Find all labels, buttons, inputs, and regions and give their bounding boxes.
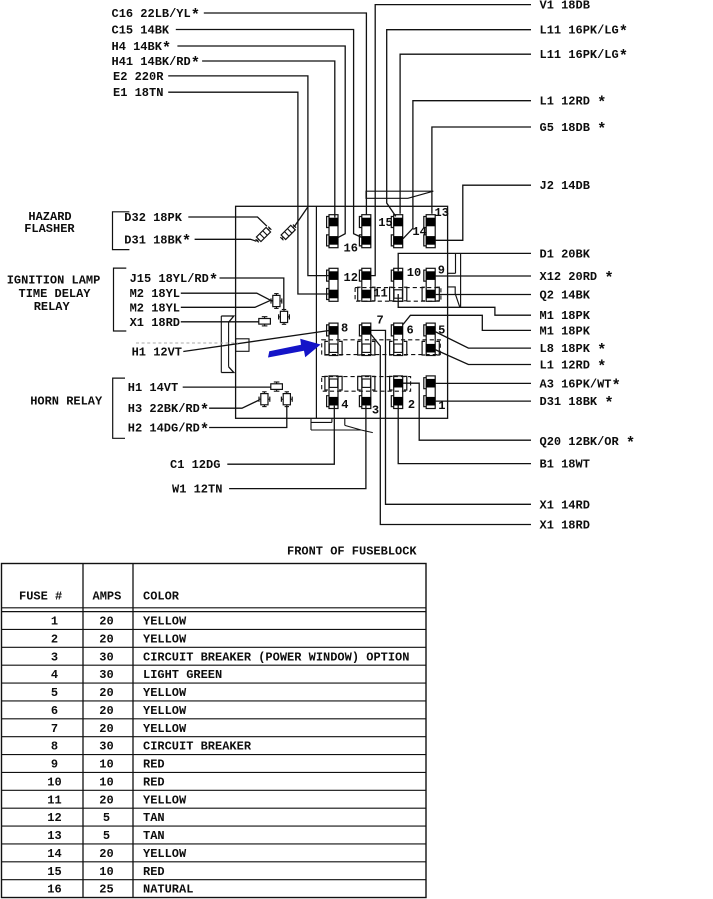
fuse 10 bottom terminal	[394, 290, 402, 298]
fuse 10 top terminal	[393, 271, 403, 280]
svg-text:20: 20	[99, 704, 113, 718]
svg-text:X1 14RD: X1 14RD	[540, 498, 590, 512]
wire J2 to fuse 13 bottom	[435, 185, 531, 240]
fuse clip zone row 8-7-6-5 (dashed)	[322, 340, 441, 355]
svg-text:20: 20	[99, 722, 113, 736]
fuse table row 6 separator	[2, 718, 427, 720]
horn relay terminal A	[261, 394, 268, 405]
wire splice to relay terminal	[271, 299, 273, 302]
fuse 9 top terminal	[426, 271, 436, 280]
svg-text:13: 13	[435, 206, 449, 220]
svg-text:10: 10	[47, 775, 61, 789]
wire X1 18RD from fuse 7 top	[371, 334, 531, 525]
wire L8 from fuse 5 top	[435, 332, 531, 349]
wire X12 to fuse 9 top	[435, 275, 531, 277]
fuse table row 10 separator	[2, 789, 427, 791]
svg-text:20: 20	[99, 793, 113, 807]
wire L1 to fuse 14 bottom	[403, 101, 531, 239]
fuse table row 2 separator	[2, 646, 427, 648]
wire D31 from fuse 1 bottom	[435, 400, 531, 402]
fuse 15 body	[362, 215, 371, 248]
svg-text:V1 18DB: V1 18DB	[540, 0, 590, 13]
svg-text:2: 2	[51, 633, 58, 647]
fuse table row 3 separator	[2, 664, 427, 666]
wire D32 to hazard flasher	[188, 217, 267, 226]
svg-text:NATURAL: NATURAL	[143, 883, 193, 897]
svg-text:H1 14VT: H1 14VT	[128, 381, 178, 395]
fuse 13 top terminal	[426, 218, 436, 227]
svg-text:11: 11	[47, 793, 61, 807]
fuse 13 bottom terminal	[426, 236, 436, 245]
svg-text:YELLOW: YELLOW	[143, 793, 187, 807]
svg-text:M1 18PK: M1 18PK	[540, 324, 591, 338]
svg-text:E1 18TN: E1 18TN	[113, 86, 163, 100]
fuse 3 bottom terminal	[362, 397, 372, 406]
svg-text:RED: RED	[143, 775, 165, 789]
fuse table header separator	[2, 607, 427, 609]
fuse table row 14 separator	[2, 861, 427, 863]
fuse 5 bottom terminal	[426, 344, 436, 353]
blue pointer arrow	[268, 339, 321, 358]
svg-text:11: 11	[373, 286, 387, 300]
svg-text:B1 18WT: B1 18WT	[540, 458, 590, 472]
fuse table row 11 separator	[2, 807, 427, 809]
hazard flasher bracket	[113, 212, 130, 250]
fuse 1 bottom terminal	[426, 397, 436, 406]
ignition relay terminal 1	[273, 295, 280, 306]
wire M2 first to splice	[181, 293, 271, 300]
svg-text:M1 18PK: M1 18PK	[540, 309, 591, 323]
wire L11 first to fuse 14 top	[387, 30, 531, 217]
fuse 4 body	[329, 376, 338, 409]
svg-text:FRONT OF FUSEBLOCK: FRONT OF FUSEBLOCK	[287, 544, 417, 558]
svg-text:X1 18RD: X1 18RD	[540, 519, 590, 533]
svg-text:YELLOW: YELLOW	[143, 615, 187, 629]
fuse 4 top terminal	[329, 379, 337, 387]
svg-text:6: 6	[51, 704, 58, 718]
svg-text:10: 10	[99, 865, 113, 879]
wire H1 14VT to horn relay	[183, 386, 271, 388]
fuse 11 top terminal	[362, 271, 372, 280]
svg-text:J2 14DB: J2 14DB	[540, 179, 590, 193]
fuse clip zone row 4-3-2 (dashed)	[322, 377, 411, 392]
bus bar tab left of block	[220, 316, 222, 373]
svg-text:LIGHT GREEN: LIGHT GREEN	[143, 668, 222, 682]
svg-text:14: 14	[412, 225, 426, 239]
fuse 6 top terminal	[393, 326, 403, 335]
fuse 11 bottom terminal	[362, 290, 372, 299]
wire D31 to hazard flasher	[195, 239, 257, 241]
wire X1 14RD from fuse 7 top	[371, 330, 531, 504]
terminal staple right of block upper	[455, 253, 457, 273]
wire W1 to fuse 3 bottom	[229, 406, 366, 489]
svg-text:20: 20	[99, 633, 113, 647]
wire H3 to horn relay	[209, 400, 259, 408]
wire J15 to relay	[220, 278, 284, 310]
fuse 12 body	[329, 268, 338, 301]
wire M1 second from fuse 6 top	[403, 315, 531, 330]
wire V1 to fuse 11 top	[371, 5, 531, 276]
svg-text:3: 3	[372, 403, 379, 417]
fuse 3 top terminal	[362, 379, 370, 387]
wire E1 to fuse 12 bottom	[168, 92, 329, 294]
wire L11 second to fuse 14 top	[400, 54, 531, 214]
svg-text:30: 30	[99, 740, 113, 754]
svg-text:12: 12	[47, 811, 61, 825]
relay splice component	[259, 319, 271, 325]
svg-text:5: 5	[103, 811, 110, 825]
ignition relay terminal 2	[280, 311, 287, 322]
svg-text:16: 16	[344, 242, 358, 256]
wire E2 to fuse 12 top	[168, 76, 329, 276]
svg-text:8: 8	[341, 322, 348, 336]
svg-text:10: 10	[99, 775, 113, 789]
fuse table row 7 separator	[2, 736, 427, 738]
svg-text:5: 5	[103, 829, 110, 843]
wire C15 to fuse 15 bottom	[176, 30, 362, 238]
fuse 16 top terminal	[329, 218, 339, 227]
svg-text:RED: RED	[143, 758, 165, 772]
svg-text:10: 10	[407, 266, 421, 280]
fuse table row 12 separator	[2, 825, 427, 827]
horn relay terminal B	[283, 394, 290, 405]
fuse 14 bottom terminal	[393, 236, 403, 245]
svg-text:M2 18YL: M2 18YL	[130, 287, 180, 301]
fuse 6 body	[394, 323, 403, 355]
svg-text:30: 30	[99, 668, 113, 682]
wire X1 to relay splice	[181, 321, 259, 323]
fuse 14 top terminal	[393, 218, 403, 227]
fuse table outer border	[2, 564, 427, 898]
svg-text:RELAY: RELAY	[34, 300, 71, 314]
svg-text:IGNITION LAMP: IGNITION LAMP	[7, 274, 101, 288]
svg-text:H1 12VT: H1 12VT	[132, 346, 182, 360]
horn relay splice component	[271, 384, 283, 390]
fuse 5 top terminal	[426, 326, 436, 335]
svg-text:4: 4	[341, 398, 348, 412]
svg-text:YELLOW: YELLOW	[143, 704, 187, 718]
fuse 6 bottom terminal	[394, 344, 402, 352]
svg-text:COLOR: COLOR	[143, 590, 180, 604]
wire Q20 from fuse 2 top	[403, 383, 531, 440]
wire A3 from fuse 1 top	[435, 382, 531, 384]
fuse 7 bottom terminal	[362, 344, 370, 352]
ignition relay bracket	[114, 268, 127, 331]
fuse clip zone row 11-10-9 (dashed)	[355, 288, 441, 302]
svg-text:25: 25	[99, 883, 113, 897]
fuse 15 bottom terminal	[362, 236, 372, 245]
svg-text:3: 3	[51, 650, 58, 664]
wire C16 to fuse 15 top	[204, 13, 367, 215]
horn relay bracket	[113, 378, 125, 438]
fuse table row 1 separator	[2, 628, 427, 630]
fuse 9 bottom terminal	[426, 290, 436, 299]
svg-text:YELLOW: YELLOW	[143, 722, 187, 736]
wire B1 from fuse 2 bottom	[398, 406, 531, 464]
fuse 2 body	[394, 376, 403, 409]
svg-text:FLASHER: FLASHER	[24, 222, 75, 236]
svg-text:HORN RELAY: HORN RELAY	[30, 394, 103, 408]
wire G5 to fuse 13 top	[432, 127, 531, 214]
fuse 7 body	[362, 323, 371, 355]
fuse table row 4 separator	[2, 682, 427, 684]
wire D1 to fuse 10 top	[398, 253, 531, 271]
cavity box on left edge of block	[236, 339, 249, 352]
fuse 2 top terminal	[393, 379, 403, 388]
svg-text:7: 7	[51, 722, 58, 736]
hazard flasher element 2	[280, 224, 297, 241]
fuse 2 bottom terminal	[393, 397, 403, 406]
svg-text:CIRCUIT BREAKER: CIRCUIT BREAKER	[143, 740, 252, 754]
svg-text:20: 20	[99, 686, 113, 700]
svg-text:C15 14BK: C15 14BK	[112, 24, 170, 38]
fuse table row 8 separator	[2, 754, 427, 756]
wire H4 to fuse 16 bottom	[177, 46, 345, 237]
svg-text:16: 16	[47, 883, 61, 897]
fuse 16 bottom terminal	[329, 236, 339, 245]
connector tongue at top of block	[366, 191, 433, 198]
svg-text:M2 18YL: M2 18YL	[130, 301, 180, 315]
svg-text:14: 14	[47, 847, 61, 861]
svg-text:TAN: TAN	[143, 829, 165, 843]
svg-text:2: 2	[408, 398, 415, 412]
svg-text:15: 15	[378, 216, 392, 230]
svg-text:CIRCUIT BREAKER (POWER WINDOW): CIRCUIT BREAKER (POWER WINDOW) OPTION	[143, 650, 409, 664]
svg-text:9: 9	[51, 758, 58, 772]
fuse 3 body	[362, 376, 371, 409]
svg-text:6: 6	[407, 324, 414, 338]
svg-text:8: 8	[51, 740, 58, 754]
svg-text:5: 5	[51, 686, 58, 700]
fuse 4 bottom terminal	[329, 397, 339, 406]
wire H41 to fuse 16 top	[202, 61, 335, 218]
wire H2 to horn relay	[209, 407, 287, 428]
fuse 16 body	[329, 215, 338, 248]
svg-text:AMPS: AMPS	[93, 590, 122, 604]
svg-text:YELLOW: YELLOW	[143, 633, 187, 647]
svg-text:Q2 14BK: Q2 14BK	[540, 289, 591, 303]
svg-text:C1 12DG: C1 12DG	[170, 458, 220, 472]
svg-text:D1 20BK: D1 20BK	[540, 247, 591, 261]
wire hazard flasher to E2 feed	[295, 207, 308, 226]
svg-text:13: 13	[47, 829, 61, 843]
fuse 9 body	[426, 268, 435, 301]
fuse 12 bottom terminal	[329, 290, 339, 299]
wire M1 first from fuse 10 bottom	[398, 294, 531, 315]
svg-text:30: 30	[99, 650, 113, 664]
fuse 8 body	[329, 323, 338, 355]
wire M2 second to splice	[181, 300, 271, 307]
svg-text:X1 18RD: X1 18RD	[130, 316, 180, 330]
fuse 13 body	[426, 215, 435, 248]
fuse 7 top terminal	[362, 326, 372, 335]
svg-text:YELLOW: YELLOW	[143, 847, 187, 861]
svg-text:FUSE #: FUSE #	[19, 590, 62, 604]
svg-text:10: 10	[99, 758, 113, 772]
fuse 1 body	[426, 376, 435, 409]
terminal staple right of block lower	[448, 287, 460, 307]
svg-text:TAN: TAN	[143, 811, 165, 825]
svg-text:1: 1	[51, 615, 58, 629]
svg-text:W1 12TN: W1 12TN	[172, 483, 222, 497]
svg-text:7: 7	[377, 313, 384, 327]
svg-text:12: 12	[344, 271, 358, 285]
fuseblock outline	[236, 206, 448, 418]
svg-text:E2 220R: E2 220R	[113, 70, 164, 84]
fuse table column line 1	[82, 564, 84, 898]
fuse table row 13 separator	[2, 843, 427, 845]
fuse 12 top terminal	[329, 271, 339, 280]
wire H1 12VT to fuse 8 top	[183, 330, 330, 351]
fuse 11 body	[362, 268, 371, 301]
stray dashed mark	[136, 342, 238, 344]
wire L1 from fuse 5 bottom	[435, 350, 531, 365]
fuseblock internal divider	[315, 206, 317, 418]
svg-text:9: 9	[438, 263, 445, 277]
fuse 10 body	[394, 268, 403, 301]
wire C1 to fuse 4 bottom	[227, 406, 334, 465]
fuse table row 15 separator	[2, 879, 427, 881]
svg-text:15: 15	[47, 865, 61, 879]
wire Q2 to fuse 9 bottom	[435, 294, 531, 296]
fuse table column line 2	[132, 564, 134, 898]
fuse 8 top terminal	[329, 326, 339, 335]
svg-text:D32 18PK: D32 18PK	[124, 211, 182, 225]
svg-text:YELLOW: YELLOW	[143, 686, 187, 700]
hazard flasher element 1	[255, 226, 272, 243]
svg-text:4: 4	[51, 668, 58, 682]
fuse 15 top terminal	[362, 218, 372, 227]
fuse 5 body	[426, 323, 435, 355]
svg-text:20: 20	[99, 615, 113, 629]
fuse table row 9 separator	[2, 771, 427, 773]
svg-text:RED: RED	[143, 865, 165, 879]
fuse 14 body	[394, 215, 403, 248]
svg-text:20: 20	[99, 847, 113, 861]
connector tab below block	[310, 418, 312, 430]
fuse table row 5 separator	[2, 700, 427, 702]
fuse 1 top terminal	[426, 379, 436, 388]
fuse 8 bottom terminal	[329, 344, 337, 352]
